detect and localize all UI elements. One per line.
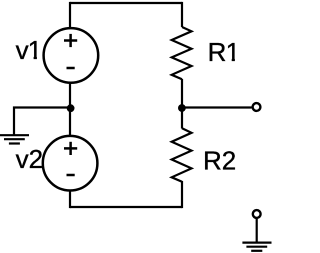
wire R2 bottom lead — [181, 181, 183, 208]
resistor R2 — [172, 128, 192, 181]
terminal reference (open circle) — [253, 210, 261, 218]
wire terminal to right ground — [256, 218, 258, 242]
wire R2 top lead — [181, 108, 183, 129]
svg-text:v2: v2 — [16, 144, 43, 174]
voltage source v2 — [43, 136, 98, 191]
voltage source v1 — [44, 28, 99, 83]
wire node A to left ground — [14, 108, 70, 135]
svg-text:1: 1 — [226, 37, 240, 67]
wire v1 top lead — [69, 2, 71, 29]
svg-text:R2: R2 — [203, 145, 236, 175]
wire node B to output terminal — [182, 106, 252, 108]
terminal output (open circle) — [253, 103, 261, 111]
node B junction dot — [178, 104, 186, 112]
wire top rail from v1 to R1 — [70, 2, 182, 4]
node A junction dot — [67, 104, 75, 112]
wire R1 bottom lead to node B — [181, 79, 183, 112]
svg-text:R: R — [208, 37, 227, 67]
wire v1 bottom lead to v2 top through node — [69, 82, 71, 136]
wire R1 top lead — [181, 2, 183, 27]
svg-text:1: 1 — [28, 35, 42, 65]
wire v2 bottom lead — [69, 190, 71, 208]
wire bottom rail — [70, 206, 182, 208]
resistor R1 — [172, 27, 192, 79]
ground left — [0, 135, 29, 143]
ground right — [242, 243, 271, 251]
